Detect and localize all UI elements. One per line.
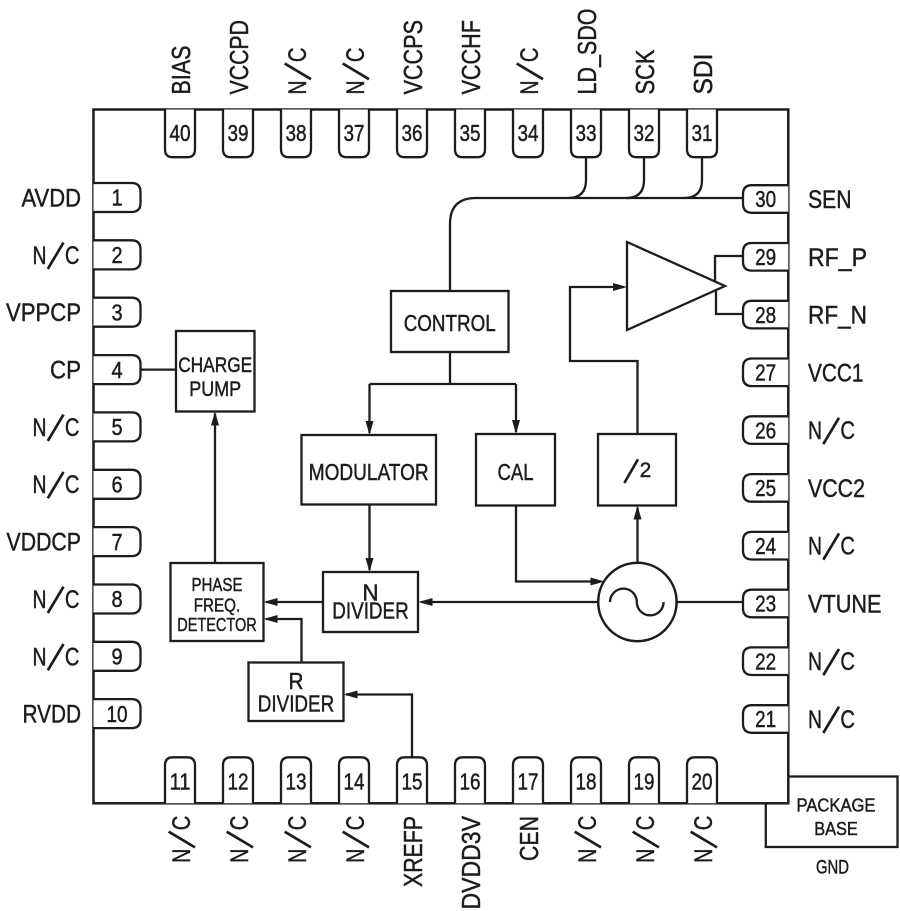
svg-text:32: 32 xyxy=(634,120,655,146)
svg-text:DETECTOR: DETECTOR xyxy=(177,615,257,635)
wire pin 32 SCK stub to bus xyxy=(626,157,644,198)
svg-text:39: 39 xyxy=(228,120,249,146)
pin 11 label N/C xyxy=(168,816,196,863)
svg-text:3: 3 xyxy=(111,299,122,325)
svg-text:28: 28 xyxy=(755,302,776,328)
pin 16 box (bottom edge) xyxy=(455,757,485,803)
svg-text:17: 17 xyxy=(518,769,539,795)
svg-text:1: 1 xyxy=(111,185,122,211)
wire amplifier to pin 29 RF_P xyxy=(715,256,743,282)
pin 1 box (left edge) xyxy=(94,183,141,212)
arrowhead into amplifier xyxy=(613,283,627,291)
svg-text:8: 8 xyxy=(111,586,122,612)
oscillator VCO circle xyxy=(598,563,676,641)
svg-text:23: 23 xyxy=(755,591,776,617)
pin 27 box (right edge) xyxy=(743,359,788,387)
svg-text:14: 14 xyxy=(344,769,365,795)
svg-text:VCC2: VCC2 xyxy=(808,475,865,503)
pin 35 box (top edge) xyxy=(455,110,485,158)
svg-text:VTUNE: VTUNE xyxy=(808,591,882,619)
wire MODULATOR to N DIVIDER xyxy=(368,505,370,571)
svg-text:MODULATOR: MODULATOR xyxy=(309,459,429,485)
svg-text:40: 40 xyxy=(170,120,191,146)
block R DIVIDER xyxy=(249,663,344,722)
pin 33 box (top edge) xyxy=(571,110,601,158)
pin 18 label N/C xyxy=(574,816,602,863)
svg-text:LD_SDO: LD_SDO xyxy=(572,9,602,95)
svg-text:BIAS: BIAS xyxy=(166,46,196,95)
svg-text:34: 34 xyxy=(518,120,539,146)
pin 34 label N/C xyxy=(516,47,544,94)
svg-text:38: 38 xyxy=(286,120,307,146)
op block CONTROL U1 xyxy=(391,291,509,352)
wire R DIVIDER to PHASE FREQ DETECTOR xyxy=(266,619,302,663)
svg-text:21: 21 xyxy=(755,706,776,732)
wire pin 15 XREFP to R DIVIDER xyxy=(346,695,412,758)
svg-text:22: 22 xyxy=(755,648,776,674)
pin 19 label N/C xyxy=(632,816,660,863)
pin 31 box (top edge) xyxy=(687,110,717,158)
svg-text:CP: CP xyxy=(50,357,81,385)
svg-text:18: 18 xyxy=(576,769,597,795)
pin 9 box (left edge) xyxy=(94,642,141,671)
svg-text:DVDD3V: DVDD3V xyxy=(456,815,486,909)
svg-text:SEN: SEN xyxy=(808,186,852,214)
svg-text:XREFP: XREFP xyxy=(398,816,428,887)
pin 20 box (bottom edge) xyxy=(687,757,717,803)
wire amplifier to pin 28 RF_N xyxy=(716,291,743,315)
pin 29 box (right edge) xyxy=(743,243,788,271)
arrowhead into MODULATOR top xyxy=(366,421,374,435)
pin 2 box (left edge) xyxy=(94,240,141,269)
wire pin 4 CP to CHARGE PUMP xyxy=(141,368,177,370)
pin 32 box (top edge) xyxy=(629,110,659,158)
pin 14 label N/C xyxy=(342,816,370,863)
block N DIVIDER xyxy=(323,572,418,632)
pin 23 box (right edge) xyxy=(743,590,788,618)
svg-text:PACKAGE: PACKAGE xyxy=(797,796,876,816)
wire VCO to /2 xyxy=(636,508,638,563)
pin 12 label N/C xyxy=(226,816,254,863)
svg-text:RF_N: RF_N xyxy=(808,302,867,330)
svg-text:DIVIDER: DIVIDER xyxy=(258,691,335,717)
svg-text:31: 31 xyxy=(692,120,713,146)
svg-text:16: 16 xyxy=(460,769,481,795)
svg-text:CEN: CEN xyxy=(514,816,544,861)
arrowhead into N DIVIDER right xyxy=(419,598,433,606)
VCO sine wave symbol xyxy=(610,589,664,616)
svg-text:27: 27 xyxy=(755,360,776,386)
svg-text:9: 9 xyxy=(111,644,122,670)
PACKAGE BASE box (behind chip corner) xyxy=(766,777,898,848)
svg-text:VCC1: VCC1 xyxy=(808,359,864,387)
pin 21 label N/C xyxy=(808,706,855,734)
svg-text:29: 29 xyxy=(755,244,776,270)
arrowhead into CAL top xyxy=(512,420,520,434)
svg-text:6: 6 xyxy=(111,471,122,497)
svg-text:2: 2 xyxy=(111,242,122,268)
pin 5 label N/C xyxy=(33,414,80,442)
svg-text:BASE: BASE xyxy=(814,819,858,839)
svg-text:36: 36 xyxy=(402,120,423,146)
wire CONTROL output to branch tee xyxy=(449,352,451,384)
wire VCO to pin 23 VTUNE xyxy=(677,601,743,603)
arrowhead into /2 bottom xyxy=(634,506,642,520)
pin 24 box (right edge) xyxy=(743,532,788,560)
pin 39 box (top edge) xyxy=(223,110,253,158)
wire CAL to VCO xyxy=(516,506,592,582)
svg-text:CHARGE: CHARGE xyxy=(178,354,252,377)
arrowhead into CHARGE PUMP bottom xyxy=(211,412,219,426)
pin 6 box (left edge) xyxy=(94,470,141,499)
arrowhead into PFD from N DIVIDER xyxy=(264,598,278,606)
block /2 divider xyxy=(598,434,676,506)
pin 37 label N/C xyxy=(342,47,370,94)
pin 3 box (left edge) xyxy=(94,298,141,327)
wire branch drop to MODULATOR xyxy=(368,384,370,433)
svg-text:15: 15 xyxy=(402,769,423,795)
arrowhead into PFD from R DIVIDER xyxy=(264,615,278,623)
output amplifier triangle xyxy=(627,242,725,330)
wire pin 33 LD_SDO stub to bus xyxy=(568,157,586,198)
pin 38 box (top edge) xyxy=(281,110,311,158)
wire branch horizontal to MODULATOR and CAL xyxy=(370,383,517,385)
pin 36 box (top edge) xyxy=(397,110,427,158)
pin 13 box (bottom edge) xyxy=(281,757,311,803)
pin 26 box (right edge) xyxy=(743,416,788,444)
pin 37 box (top edge) xyxy=(339,110,369,158)
pin 17 box (bottom edge) xyxy=(513,757,543,803)
svg-text:11: 11 xyxy=(170,769,191,795)
svg-text:33: 33 xyxy=(576,120,597,146)
svg-text:12: 12 xyxy=(228,769,249,795)
svg-text:RVDD: RVDD xyxy=(23,701,82,729)
pin 20 label N/C xyxy=(690,816,718,863)
svg-text:13: 13 xyxy=(286,769,307,795)
pin 22 box (right edge) xyxy=(743,647,788,675)
pin 2 label N/C xyxy=(33,242,80,270)
pin 38 label N/C xyxy=(284,47,312,94)
svg-text:VPPCP: VPPCP xyxy=(6,299,81,327)
wire pin 31 SDI stub to bus xyxy=(684,157,702,198)
pin 14 box (bottom edge) xyxy=(339,757,369,803)
wire PHASE FREQ DETECTOR to CHARGE PUMP xyxy=(214,414,216,564)
svg-text:19: 19 xyxy=(634,769,655,795)
wire serial bus from pin 30 SEN to CONTROL xyxy=(450,198,743,291)
svg-text:FREQ.: FREQ. xyxy=(194,596,241,616)
svg-text:AVDD: AVDD xyxy=(22,185,82,213)
pin 19 box (bottom edge) xyxy=(629,757,659,803)
svg-text:PUMP: PUMP xyxy=(189,378,241,401)
svg-text:2: 2 xyxy=(640,459,652,482)
pin 21 box (right edge) xyxy=(743,705,788,733)
svg-text:PHASE: PHASE xyxy=(192,575,243,595)
svg-text:35: 35 xyxy=(460,120,481,146)
pin 24 label N/C xyxy=(808,533,855,561)
arrowhead into R DIVIDER right xyxy=(344,691,358,699)
pin 6 label N/C xyxy=(33,471,80,499)
svg-text:GND: GND xyxy=(816,858,849,879)
svg-text:4: 4 xyxy=(111,357,122,383)
pin 8 box (left edge) xyxy=(94,585,141,614)
block PHASE FREQ. DETECTOR xyxy=(171,563,264,641)
block CHARGE PUMP xyxy=(176,331,255,412)
wire branch drop to CAL xyxy=(515,384,517,432)
svg-text:VCCPS: VCCPS xyxy=(398,20,428,95)
pin 25 box (right edge) xyxy=(743,474,788,502)
wire /2 to output amplifier xyxy=(570,287,638,434)
pin 26 label N/C xyxy=(808,417,855,445)
pin 11 box (bottom edge) xyxy=(165,757,195,803)
svg-text:CAL: CAL xyxy=(498,459,534,485)
pin 40 box (top edge) xyxy=(165,110,195,158)
arrowhead into N DIVIDER top xyxy=(366,558,374,572)
svg-text:25: 25 xyxy=(755,475,776,501)
pin 13 label N/C xyxy=(284,816,312,863)
svg-text:SCK: SCK xyxy=(630,49,660,95)
wire VCO to N DIVIDER xyxy=(421,601,599,603)
arrowhead into VCO from CAL xyxy=(591,578,605,586)
svg-text:10: 10 xyxy=(107,701,128,727)
pin 8 label N/C xyxy=(33,586,80,614)
svg-text:5: 5 xyxy=(111,414,122,440)
svg-text:VDDCP: VDDCP xyxy=(7,529,82,557)
svg-text:VCCPD: VCCPD xyxy=(224,20,254,95)
pin 30 box (right edge) xyxy=(743,185,788,213)
pin 7 box (left edge) xyxy=(94,527,141,556)
svg-text:DIVIDER: DIVIDER xyxy=(332,597,409,623)
block MODULATOR xyxy=(302,435,437,505)
pin 22 label N/C xyxy=(808,648,855,676)
pin 10 box (left edge) xyxy=(94,699,141,728)
svg-text:26: 26 xyxy=(755,417,776,443)
pin 28 box (right edge) xyxy=(743,301,788,329)
svg-text:7: 7 xyxy=(111,529,122,555)
svg-text:37: 37 xyxy=(344,120,365,146)
svg-text:24: 24 xyxy=(755,533,776,559)
pin 5 box (left edge) xyxy=(94,412,141,441)
pin 4 box (left edge) xyxy=(94,355,141,384)
pin 9 label N/C xyxy=(33,643,80,671)
label /2 slash xyxy=(624,459,638,483)
svg-text:20: 20 xyxy=(692,769,713,795)
block CAL xyxy=(476,434,555,506)
svg-text:SDI: SDI xyxy=(688,54,718,95)
wire N DIVIDER to PHASE FREQ DETECTOR xyxy=(266,601,323,603)
pin 34 box (top edge) xyxy=(513,110,543,158)
svg-text:CONTROL: CONTROL xyxy=(404,310,496,336)
svg-text:VCCHF: VCCHF xyxy=(456,20,486,95)
svg-text:RF_P: RF_P xyxy=(808,244,867,272)
chip body outline (40-lead package) xyxy=(94,110,789,804)
pin 15 box (bottom edge) xyxy=(397,757,427,803)
pin 18 box (bottom edge) xyxy=(571,757,601,803)
pin 12 box (bottom edge) xyxy=(223,757,253,803)
svg-text:30: 30 xyxy=(755,186,776,212)
